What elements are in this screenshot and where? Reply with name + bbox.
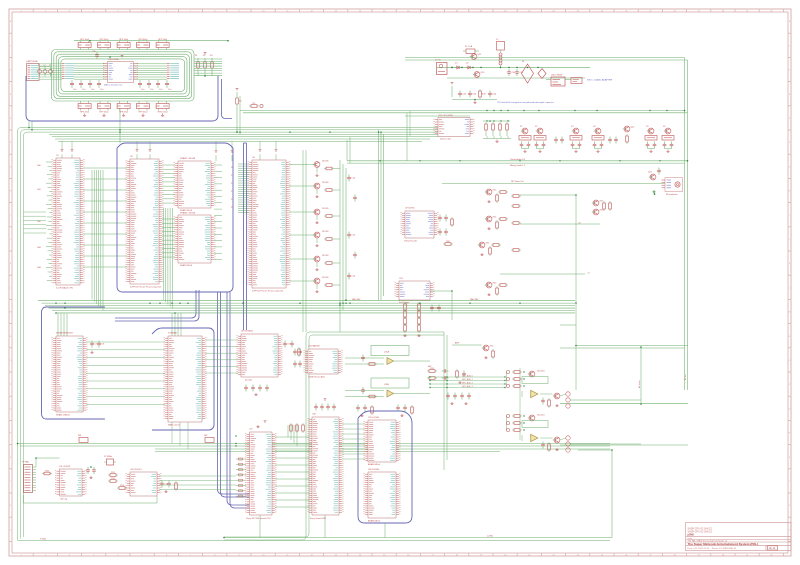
capacitor X2C: [535, 142, 546, 153]
RC cluster below opamps: [356, 405, 413, 417]
svg-text:U15B: U15B: [384, 384, 390, 386]
net wire riser reset: [407, 111, 410, 161]
IC U17 SPC700 sound CPU: [245, 429, 277, 520]
net long pair controller clock: [17, 444, 610, 452]
RC row audio left: [446, 393, 471, 405]
svg-text:F1 1.5A: F1 1.5A: [465, 45, 473, 48]
capacitor X6C: [663, 142, 674, 153]
net wires DSP to ARAM: [342, 424, 365, 459]
net vcc drops from bundle: [62, 141, 276, 150]
capacitor column chroma: [347, 175, 357, 280]
svg-text:shift reg: shift reg: [60, 497, 67, 500]
svg-text:RP8 33x4: RP8 33x4: [119, 111, 129, 113]
svg-text:FB2: FB2: [204, 435, 207, 437]
svg-text:10u: 10u: [141, 89, 144, 91]
crystal X1X: [519, 136, 531, 141]
resistor divider above DSP: [290, 423, 305, 433]
capacitor X1C: [520, 142, 531, 153]
IC U8 S-RGB decoder: [237, 329, 283, 381]
capacitor C21: [79, 80, 85, 91]
bus blue envelope PPU1/VRAM: [117, 148, 233, 292]
svg-text:Sony Sound DSP: Sony Sound DSP: [310, 518, 327, 520]
capacitor row below U8: [244, 385, 269, 396]
svg-text:Mixing Guide 1.1: Mixing Guide 1.1: [510, 165, 526, 167]
svg-text:5VDC 1.5A AC ADAPTER: 5VDC 1.5A AC ADAPTER: [587, 79, 613, 82]
svg-text:C91 should all changed to non-: C91 should all changed to non-polarized …: [497, 101, 554, 104]
svg-text:2SC2413: 2SC2413: [537, 415, 545, 417]
IC U10 address decoder: [103, 58, 138, 87]
resistor pack RP3: [117, 39, 130, 50]
svg-text:ARAM 64Kx4: ARAM 64Kx4: [368, 519, 381, 522]
transistor Q12 video out: [485, 189, 508, 203]
svg-text:GPO_AUD_3: GPO_AUD_3: [462, 385, 473, 388]
capacitor C26: [156, 80, 162, 91]
svg-text:2SC2413: 2SC2413: [537, 371, 545, 373]
svg-text:VRAM2 LH5168: VRAM2 LH5168: [180, 211, 196, 214]
resistor cluster reset: [483, 120, 510, 136]
net wires S-WRAM to U8: [205, 340, 238, 373]
svg-text:RP5 33x4: RP5 33x4: [158, 39, 168, 41]
transistor Q2 video drive: [289, 182, 340, 198]
capacitor C24: [138, 80, 144, 91]
svg-text:U20 D41464: U20 D41464: [368, 469, 380, 471]
crystal X5X: [645, 136, 657, 141]
svg-text:J: J: [789, 239, 790, 241]
net wires APU to bottom: [260, 515, 385, 538]
transistor X4Q: [593, 126, 601, 134]
capacitor row above DSP: [314, 399, 336, 411]
op-amp U15A: [345, 346, 430, 366]
connector DC jack J2: [435, 60, 447, 75]
transistor Q3 video drive: [289, 208, 340, 224]
bus blue below U2: [115, 290, 196, 318]
svg-text:AV audio: AV audio: [638, 380, 641, 388]
svg-text:2SC: 2SC: [492, 282, 497, 284]
capacitor X5C: [646, 142, 657, 153]
svg-text:10u: 10u: [82, 89, 85, 91]
RF modulator connector J3: [662, 178, 683, 196]
svg-text:R3: R3: [210, 55, 212, 57]
diode bridge B1: [522, 61, 534, 83]
svg-text:U12 CD4021: U12 CD4021: [130, 469, 142, 471]
capacitor C22: [88, 80, 94, 91]
IC U6 WRAM SRAM 128Kx8: [52, 331, 88, 416]
net wires S-WRAM down: [172, 422, 188, 449]
net mid-right rails: [560, 303, 688, 445]
transistor Q5 video drive: [289, 255, 340, 271]
crystal X2X: [534, 136, 546, 141]
diode bridge B2: [538, 69, 546, 79]
resistor pack RP9: [137, 101, 150, 116]
vcc arrow top cluster: [121, 55, 124, 57]
svg-text:2SC: 2SC: [489, 345, 494, 347]
net bottom long wire: [18, 535, 613, 540]
wire bundle S-ENC verticals: [379, 130, 384, 300]
svg-text:10u: 10u: [100, 89, 103, 91]
fuse F1 group left of cluster: [38, 65, 53, 77]
crystal X4X: [592, 136, 604, 141]
regulator U30 7805: [546, 74, 571, 86]
net clock audio lines: [347, 137, 688, 167]
svg-text:2SC945: 2SC945: [322, 231, 329, 233]
capacitor C40: [507, 69, 516, 76]
resistor pack RP4: [137, 39, 150, 50]
svg-text:U30 L78S05: U30 L78S05: [551, 74, 563, 76]
resistor pack RP5: [156, 39, 169, 50]
svg-text:RP6 33x4: RP6 33x4: [80, 111, 90, 113]
capacitors right of WRAM: [90, 341, 105, 354]
capacitor C41: [515, 69, 524, 76]
op-amp U15B: [345, 378, 430, 398]
svg-text:U10 F411A: U10 F411A: [108, 58, 119, 61]
filter channel at y372: [506, 370, 641, 408]
IC U20 ARAM2: [364, 469, 401, 522]
svg-text:2SC: 2SC: [599, 200, 604, 202]
net wires U1 left to rail: [24, 212, 47, 233]
resistors R11 R12: [108, 472, 127, 489]
svg-text:RP4 33x4: RP4 33x4: [139, 39, 149, 41]
capacitors left of U14: [293, 349, 302, 368]
svg-text:10u: 10u: [150, 89, 153, 91]
svg-text:2SC945: 2SC945: [322, 277, 329, 279]
IC U31 CIC lockout: [434, 114, 475, 141]
connector J1 cartridge left: [26, 60, 39, 81]
net wires right of VRAM: [214, 165, 222, 260]
connector power out: [571, 78, 582, 84]
IC U12 CD4021: [126, 469, 162, 496]
resistor ladder video: [511, 195, 521, 252]
svg-text:RF Video Out: RF Video Out: [511, 180, 524, 183]
svg-text:2SC945: 2SC945: [322, 182, 329, 184]
resistor R4 right drop: [236, 88, 242, 112]
net RF video out: [442, 180, 665, 183]
resistor pack RP2: [98, 39, 111, 50]
bus blue envelope WRAM: [42, 307, 105, 419]
svg-text:S-CPU5A22 CPU: S-CPU5A22 CPU: [56, 287, 74, 290]
cartridge connector cluster nested net loops: [52, 50, 195, 102]
diode D1: [455, 63, 462, 69]
svg-text:ARAM 64Kx4: ARAM 64Kx4: [368, 463, 381, 466]
connector block J1b: [62, 64, 74, 79]
IC U14 S-SMP amp: [304, 344, 343, 378]
connector block J1c: [167, 64, 179, 79]
resistor pack RP7: [98, 101, 111, 116]
svg-text:CARTRIDGE: CARTRIDGE: [26, 60, 38, 63]
bus blue envelope ARAM: [358, 411, 412, 523]
bus blue риser down to APU: [218, 292, 250, 494]
svg-text:decoder: decoder: [245, 380, 253, 382]
svg-text:U15A: U15A: [384, 350, 390, 353]
capacitor C25: [147, 80, 153, 91]
svg-text:S-PPU2 Picture Processing Uni: S-PPU2 Picture Processing Unit: [252, 290, 284, 293]
svg-text:Video Encoder: Video Encoder: [404, 240, 417, 242]
bus blue envelope cartridge: [26, 76, 218, 121]
wire verticals from cluster bottom: [29, 96, 240, 143]
junction dots power rail: [379, 67, 667, 162]
svg-text:U31 CIC F411A: U31 CIC F411A: [438, 114, 453, 117]
transistor Q23 RF: [648, 172, 656, 180]
transistor Q4 video drive: [289, 231, 340, 247]
net wires reset row: [240, 111, 688, 117]
capacitor X3C: [571, 142, 582, 153]
transistor Q1 video drive: [289, 160, 340, 176]
svg-text:U9 S-ENC: U9 S-ENC: [405, 208, 415, 210]
wire top row net: [74, 40, 229, 43]
net wires pad trigger: [430, 291, 452, 320]
svg-text:The Super Nintendo Entertainme: The Super Nintendo Entertainment System …: [688, 542, 759, 546]
crystal X3X: [570, 136, 582, 141]
svg-text:CA3: CA3: [37, 246, 41, 249]
bus blue riser PPU2: [244, 143, 247, 330]
net wires U12 to SPC: [159, 476, 236, 490]
transistor Q21: [470, 54, 482, 60]
net wires audio out: [578, 450, 612, 538]
transistor Q13 video out: [485, 216, 508, 230]
net wires U1-U2: [83, 168, 127, 311]
power sub RC: [451, 82, 497, 103]
svg-text:2SC: 2SC: [492, 189, 497, 191]
transistor Q15 video out: [485, 282, 508, 296]
svg-text:CA1: CA1: [37, 188, 41, 191]
components right of cluster: [195, 52, 213, 76]
svg-text:Vol AV Stereo Amp: Vol AV Stereo Amp: [308, 376, 326, 379]
svg-text:SRAM 32Kx8: SRAM 32Kx8: [180, 264, 193, 267]
svg-text:RP1 33x4: RP1 33x4: [80, 39, 90, 41]
resistor R10: [42, 471, 52, 475]
svg-text:CA0: CA0: [37, 164, 41, 167]
IC U5 VRAM2 SRAM 32Kx8: [174, 211, 216, 267]
svg-text:2SC: 2SC: [485, 242, 490, 244]
svg-text:10u: 10u: [91, 89, 94, 91]
IC U1 S-CPU 5A22: [52, 150, 85, 290]
inductor L5: [496, 39, 505, 67]
IC U2 S-PPU1: [126, 150, 164, 289]
IC U13 pad trigger: [395, 278, 435, 304]
svg-text:P-GND: P-GND: [40, 538, 47, 540]
svg-text:R1: R1: [195, 55, 197, 57]
bus blue riser cartridge right: [222, 79, 233, 119]
svg-text:RP10 33x4: RP10 33x4: [158, 111, 169, 113]
svg-text:WRAM HM658127: WRAM HM658127: [56, 331, 74, 334]
transistor X6Q: [663, 126, 671, 134]
transistor Q18 audio: [452, 341, 494, 358]
net wires U2-U4/U5: [162, 165, 175, 309]
capacitor X4C: [593, 142, 604, 153]
svg-text:CA4: CA4: [37, 266, 41, 269]
net wires cluster rows: [39, 64, 167, 79]
svg-text:2SC: 2SC: [492, 216, 497, 218]
filter channel at y416: [506, 414, 641, 452]
capacitors between osc: [554, 137, 618, 144]
diode D2: [466, 63, 473, 69]
svg-text:2SC945: 2SC945: [322, 160, 329, 162]
transistor X5Q: [646, 126, 654, 134]
bus blue top run PPU: [117, 143, 233, 148]
svg-text:RAM control: RAM control: [168, 424, 180, 427]
RC mix middle: [427, 366, 466, 384]
svg-text:L-GND: L-GND: [487, 535, 494, 537]
crystal X7: [104, 456, 116, 465]
fuse F2: [463, 45, 479, 53]
resistor pack RP6: [78, 101, 91, 116]
svg-text:2SC945: 2SC945: [322, 255, 329, 257]
resistor pack RP10: [156, 101, 169, 116]
wire bus bundle mid horizontal: [38, 298, 575, 313]
svg-text:GPO_AUD_0: GPO_AUD_0: [462, 374, 473, 377]
svg-text:RP7 33x4: RP7 33x4: [100, 111, 110, 113]
net audio filter labels: [429, 368, 520, 440]
svg-text:MAD-1 decoder chip: MAD-1 decoder chip: [104, 83, 123, 86]
transistor Q14 video out: [478, 242, 501, 256]
resistor R5: [249, 103, 263, 108]
net wires cluster fan-out right: [194, 59, 222, 76]
IC U7 S-WRAM control: [164, 331, 207, 426]
svg-text:RA0..RA7: RA0..RA7: [352, 298, 360, 301]
svg-text:lockout chip: lockout chip: [440, 138, 451, 141]
svg-text:Sheet: 1/1 SNES-PAL-M: Sheet: 1/1 SNES-PAL-M: [712, 547, 736, 550]
svg-text:P1 PAD: P1 PAD: [22, 460, 30, 463]
svg-text:RF modulator: RF modulator: [666, 193, 678, 196]
bus blue envelope S-WRAM: [152, 328, 214, 430]
IC U9 S-ENC video encoder: [401, 208, 439, 243]
capacitor C60 RF: [657, 168, 661, 175]
transistor Q16 Q17 RGB buffer: [592, 200, 612, 215]
ferrite bead FB2: [204, 435, 214, 443]
svg-text:Clocks Audio 1/3: Clocks Audio 1/3: [510, 158, 526, 161]
transistor X2Q: [535, 126, 543, 134]
svg-text:X7 4MHz: X7 4MHz: [104, 456, 112, 458]
IC U3 S-PPU2: [248, 150, 291, 293]
svg-text:2SC945: 2SC945: [322, 208, 329, 210]
svg-text:RA6..RA7: RA6..RA7: [470, 298, 478, 301]
net vertical right of Q column: [340, 160, 346, 332]
svg-text:Sony SPC700 Sound CPU: Sony SPC700 Sound CPU: [246, 518, 271, 520]
net audio envelope loop: [224, 150, 447, 540]
svg-text:GPO_AUD_2: GPO_AUD_2: [462, 381, 473, 384]
transistor Q20 power: [473, 72, 485, 78]
svg-text:J: J: [10, 239, 11, 241]
wire bundle drop to WRAM: [58, 313, 181, 336]
net RGB lines right: [500, 195, 600, 303]
wire bus bundle horizontal main: [18, 128, 471, 541]
net wires WRAM to S-WRAM: [86, 342, 165, 404]
svg-text:RP2 33x4: RP2 33x4: [100, 39, 110, 41]
svg-text:U14 BA6560: U14 BA6560: [308, 344, 321, 347]
wire column RC cells left of SPC700: [236, 458, 246, 497]
components right of U12: [160, 481, 177, 493]
net wires controller loop: [24, 458, 158, 503]
vcc VRAM: [215, 151, 234, 161]
svg-text:Date: 4.11.2020 20:14: Date: 4.11.2020 20:14: [688, 547, 710, 550]
net label column left of U3: [231, 164, 249, 213]
IC U11 CD4021 shift register: [55, 466, 87, 500]
capacitor C23: [97, 80, 103, 91]
svg-text:10u: 10u: [73, 89, 76, 91]
transistor Q22: [623, 126, 635, 144]
svg-text:10u: 10u: [159, 89, 162, 91]
svg-text:AV out: AV out: [684, 374, 687, 380]
svg-text:RP9 33x4: RP9 33x4: [139, 111, 149, 113]
capacitor C20: [70, 80, 76, 91]
crystal X6X: [662, 136, 674, 141]
resistor pack RP1: [78, 39, 91, 50]
transistor X1Q: [520, 126, 528, 134]
net wire power rail: [437, 67, 590, 78]
svg-text:p5M5: p5M5: [688, 534, 695, 537]
resistor pack RP8: [117, 101, 130, 116]
svg-text:No 14: No 14: [769, 548, 776, 550]
resistor ladder pad trigger: [403, 302, 440, 337]
components right of U8: [283, 341, 300, 357]
svg-text:VRAM1 LH5168: VRAM1 LH5168: [180, 157, 196, 160]
components right of U9: [438, 215, 453, 246]
svg-text:U8 S-RGB A: U8 S-RGB A: [241, 329, 253, 332]
IC U4 VRAM1 SRAM 32Kx8: [174, 157, 216, 212]
svg-text:S-WRAM: S-WRAM: [168, 331, 177, 334]
svg-text:R2: R2: [203, 55, 205, 57]
transistor X3Q: [571, 126, 579, 134]
svg-text:U11 CD4021: U11 CD4021: [59, 466, 71, 468]
ferrite bead FB1: [78, 435, 88, 443]
net right edge vertical rails: [405, 58, 688, 391]
IC U19 ARAM1: [364, 417, 401, 466]
svg-text:RP3 33x4: RP3 33x4: [119, 39, 129, 41]
svg-text:SRAM 128Kx8: SRAM 128Kx8: [56, 414, 70, 417]
net label column left of U1: [37, 162, 52, 280]
svg-text:2SC: 2SC: [599, 209, 604, 211]
junction dots bundles: [55, 131, 521, 446]
IC U18 Sony sound DSP: [308, 414, 344, 520]
capacitors right of U11: [86, 467, 96, 479]
ground SPC: [256, 421, 266, 428]
svg-text:U19 D41464: U19 D41464: [368, 417, 380, 419]
capacitor C27: [165, 80, 171, 91]
ground RF: [652, 190, 655, 195]
svg-text:FB1: FB1: [78, 435, 81, 437]
title block: [686, 523, 792, 551]
net wires SPC700 to DSP: [275, 425, 309, 507]
svg-text:10u: 10u: [168, 89, 171, 91]
capacitor row reset: [483, 136, 511, 142]
svg-text:S-PPU1 Picture Processing Uni: S-PPU1 Picture Processing Unit: [130, 286, 162, 289]
capacitor C90: [92, 51, 99, 59]
transistor Q6 video drive: [289, 277, 340, 293]
connector P1 controller: [22, 460, 36, 492]
svg-text:GPO_AUD_1: GPO_AUD_1: [462, 378, 473, 381]
